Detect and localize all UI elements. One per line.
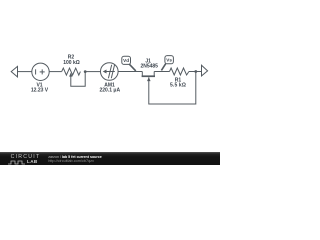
svg-text:12.23 V: 12.23 V: [31, 88, 49, 94]
svg-text:Vd: Vd: [123, 58, 129, 63]
svg-text:100 kΩ: 100 kΩ: [63, 60, 80, 66]
svg-text:2N5485: 2N5485: [140, 64, 158, 70]
svg-text:5.5 kΩ: 5.5 kΩ: [170, 83, 186, 89]
svg-text:220.1 μA: 220.1 μA: [100, 88, 121, 94]
svg-text:Vs: Vs: [166, 58, 172, 63]
